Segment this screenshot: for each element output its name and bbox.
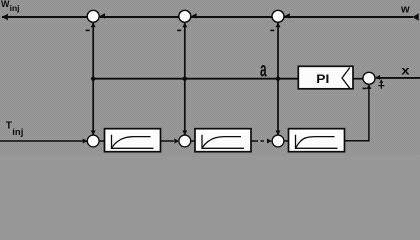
PT1 block 3 — [289, 129, 345, 152]
minus sign at summing junction 2 — [177, 30, 181, 32]
svg-text:a: a — [260, 56, 267, 81]
arrowhead down into bottom junction 3 — [276, 131, 281, 136]
svg-text:w: w — [400, 4, 410, 16]
bottom junction circle 1 — [87, 135, 99, 147]
arrowhead down into bottom junction 2 — [182, 131, 187, 136]
label T_inj — [6, 121, 24, 139]
wire junction2 to PT1 block 2 — [191, 140, 195, 142]
arrowhead into bottom junction 1 — [83, 139, 88, 144]
arrowhead into bottom junction 3 — [267, 139, 272, 144]
wire middle line (PI output distribution) — [93, 78, 298, 80]
arrowhead up into summing junction 4 — [366, 84, 371, 89]
arrowhead into summing junction 4 from right — [375, 75, 380, 80]
summing junction circle 2 (top) — [179, 10, 191, 22]
node junction V1/middle — [91, 77, 95, 81]
wire junction3 to PT1 block 3 — [284, 140, 288, 142]
bottom junction circle 2 — [179, 135, 191, 147]
arrowhead into summing junction 1 from right — [100, 13, 105, 18]
arrowhead up into summing junction 2 — [182, 23, 187, 28]
dagger mark at x input — [378, 79, 384, 89]
controller PI block U1 — [298, 66, 353, 89]
arrowhead up into summing junction 3 — [276, 23, 281, 28]
svg-text:inj: inj — [10, 3, 20, 13]
wire T_inj input line — [0, 140, 87, 142]
minus sign at summing junction 3 — [270, 30, 274, 32]
arrowhead into summing junction 2 from right — [192, 13, 197, 18]
wire top line w to W_inj — [2, 16, 413, 18]
wire vertical line V1 — [92, 23, 94, 135]
wire x input from right edge — [376, 77, 420, 79]
PT1 block 1 — [105, 129, 161, 152]
arrowhead up into summing junction 1 — [91, 23, 96, 28]
minus sign at summing junction 4 — [363, 88, 367, 90]
wire vertical line V2 — [184, 23, 186, 135]
wire junction1 to PT1 block 1 — [99, 140, 104, 142]
arrowhead into summing junction 3 from right — [285, 13, 290, 18]
summing junction circle 3 (top) — [272, 10, 284, 22]
arrowhead down into bottom junction 1 — [91, 131, 96, 136]
wire dashed continuation after PT1 block 2 — [251, 140, 259, 142]
summing junction circle 1 (top) — [87, 10, 99, 22]
summing junction circle 4 (comparison x) — [363, 72, 375, 84]
svg-text:T: T — [6, 121, 12, 132]
arrowhead input w (right end, pointing left) — [412, 13, 418, 21]
PT1 block 2 — [195, 129, 251, 152]
minus sign at summing junction 1 — [86, 30, 90, 32]
arrowhead output W_inj (left end, pointing left) — [2, 14, 9, 21]
svg-text:inj: inj — [12, 127, 23, 138]
svg-text:PI: PI — [316, 72, 329, 86]
svg-text:x: x — [401, 64, 410, 77]
bottom junction circle 3 — [272, 135, 284, 147]
wire feedback from PT1 block 3 up into summing junction 4 — [344, 85, 369, 141]
label W_inj — [1, 0, 20, 13]
node junction V3/middle — [276, 77, 280, 81]
wire vertical line V3 — [277, 23, 279, 135]
arrowhead into bottom junction 2 — [174, 139, 179, 144]
wire PI to summing junction 4 — [353, 78, 363, 80]
wire PT1 block1 to bottom junction 2 — [161, 140, 174, 142]
node junction V2/middle — [183, 77, 187, 81]
